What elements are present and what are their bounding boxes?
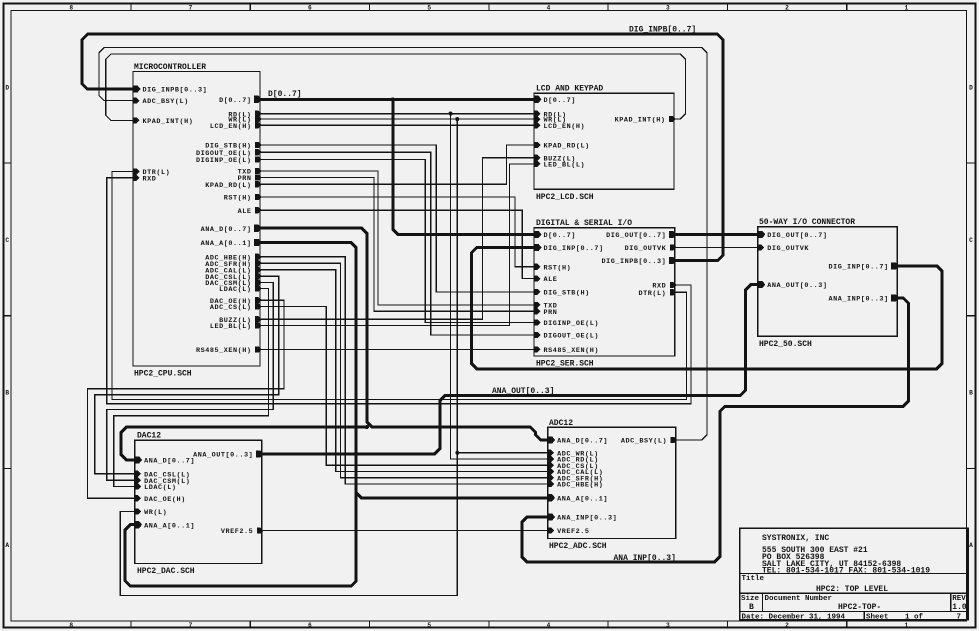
svg-text:5: 5 — [427, 622, 431, 629]
pin ADC_BSY(L) (ADC right) — [621, 437, 678, 446]
svg-text:Sheet: Sheet — [866, 614, 889, 622]
pin ADC_CS(L) (ADC left) — [548, 462, 599, 471]
pin DIG_INPB[0..3] (MCU left) — [133, 85, 207, 94]
wire DIG_OUTVK (SER to 50-way) — [675, 246, 758, 248]
svg-text:ADC_CS(L): ADC_CS(L) — [210, 304, 252, 312]
pin ANA_A[0..1] (ADC left) — [548, 494, 608, 503]
pin VREF2.5 (DAC right) — [221, 528, 264, 537]
wire LED_BL(L) — [260, 164, 534, 326]
pin WR(L) (DAC left) — [135, 508, 167, 517]
svg-text:MICROCONTROLLER: MICROCONTROLLER — [134, 63, 206, 72]
pin DTR(L) (MCU left) — [133, 168, 170, 177]
svg-text:6: 6 — [308, 5, 312, 12]
title block frame and dividers — [740, 528, 968, 619]
pin KPAD_RD(L) (MCU right) — [205, 181, 262, 190]
svg-text:DIGINP_OE(L): DIGINP_OE(L) — [544, 320, 600, 328]
wire KPAD_INT(H) (LCD to MCU around top) — [106, 54, 686, 120]
svg-text:B: B — [969, 390, 973, 397]
wire VREF2.5 (DAC to ADC) — [262, 530, 548, 532]
svg-text:HPC2_CPU.SCH: HPC2_CPU.SCH — [134, 370, 192, 379]
pin DIGINP_OE(L) (SER left) — [534, 319, 599, 328]
svg-text:8: 8 — [69, 622, 73, 629]
wire ADC_SFR(H) — [260, 263, 548, 478]
pin RS485_XEN(H) (SER left) — [534, 346, 599, 355]
pin LCD_EN(H) (MCU right) — [210, 122, 262, 131]
svg-text:DIGOUT_OE(L): DIGOUT_OE(L) — [544, 333, 600, 341]
pin ANA_INP[0..3] (W50 right) — [829, 295, 899, 304]
svg-text:DIG_STB(H): DIG_STB(H) — [544, 290, 590, 298]
pin WR(L) (LCD left) — [534, 116, 566, 125]
svg-text:C: C — [5, 237, 9, 244]
bus D[0..7] (MCU to LCD) — [260, 98, 534, 101]
svg-text:KPAD_INT(H): KPAD_INT(H) — [615, 117, 666, 125]
svg-text:HPC2_ADC.SCH: HPC2_ADC.SCH — [549, 542, 607, 551]
pin ANA_D[0..7] (MCU right) — [201, 225, 262, 234]
pin DIG_OUT[0..7] (SER right) — [606, 231, 676, 240]
pin ADC_HBE(H) (ADC left) — [548, 481, 603, 490]
svg-text:PRN: PRN — [544, 309, 558, 317]
sheet block outline: DIGITAL &amp; SERIAL I/O — [534, 228, 675, 356]
wire BUZZ(L) — [260, 158, 534, 320]
svg-text:D: D — [5, 84, 9, 91]
svg-text:REV: REV — [952, 595, 966, 603]
wire RST(H) — [260, 197, 534, 267]
title block address lines — [762, 546, 930, 576]
pin WR(L) (MCU right) — [228, 116, 261, 125]
svg-text:HPC2_LCD.SCH: HPC2_LCD.SCH — [536, 193, 594, 202]
wire DAC_CSL(L) — [95, 276, 279, 474]
svg-text:D[0..7]: D[0..7] — [544, 97, 576, 105]
svg-text:ALE: ALE — [238, 208, 252, 216]
svg-text:DIG_OUT[0..7]: DIG_OUT[0..7] — [767, 232, 827, 240]
svg-text:Document Number: Document Number — [765, 595, 833, 603]
pin RST(H) (MCU right) — [224, 194, 262, 203]
svg-text:ANA_D[0..7]: ANA_D[0..7] — [557, 438, 608, 446]
svg-text:RST(H): RST(H) — [224, 195, 252, 203]
svg-text:D[0..7]: D[0..7] — [268, 90, 302, 99]
wire PRN — [260, 177, 534, 311]
bus ANA_OUT[0..3] (DAC to 50-way) — [262, 285, 758, 454]
pin LED_BL(L) (MCU right) — [210, 323, 262, 332]
svg-text:RST(H): RST(H) — [544, 264, 572, 272]
svg-text:DIG_OUTVK: DIG_OUTVK — [625, 245, 667, 253]
pin ANA_OUT[0..3] (DAC right) — [193, 450, 263, 459]
pin DIGOUT_OE(L) (MCU right) — [196, 149, 262, 158]
svg-text:ANA_D[0..7]: ANA_D[0..7] — [201, 226, 252, 234]
pin DIGINP_OE(L) (MCU right) — [196, 156, 262, 165]
svg-text:Title: Title — [742, 575, 765, 583]
svg-text:LED_BL(L): LED_BL(L) — [544, 162, 586, 170]
svg-text:ANA_INP[0..3]: ANA_INP[0..3] — [614, 554, 676, 563]
pin RST(H) (SER left) — [534, 264, 571, 273]
junction ANA_D — [365, 425, 369, 429]
svg-text:A: A — [5, 542, 9, 549]
svg-text:D[0..7]: D[0..7] — [219, 97, 251, 105]
pin PRN (MCU right) — [238, 174, 262, 183]
pin ADC_WR(L) (ADC left) — [548, 450, 599, 459]
svg-text:DAC_OE(H): DAC_OE(H) — [144, 496, 186, 504]
pin ANA_INP[0..3] (ADC left) — [548, 513, 617, 522]
pin ANA_D[0..7] (DAC left) — [135, 456, 195, 465]
svg-text:4: 4 — [547, 5, 551, 12]
pin TXD (MCU right) — [238, 168, 262, 177]
pin D[0..7] (MCU right) — [219, 96, 262, 105]
pin ADC_SFR(H) (MCU right) — [205, 260, 262, 269]
pin ANA_A[0..1] (DAC left) — [135, 521, 195, 530]
svg-text:DAC12: DAC12 — [137, 432, 161, 441]
svg-text:ANA_INP[0..3]: ANA_INP[0..3] — [829, 296, 889, 304]
svg-text:7: 7 — [956, 614, 961, 622]
svg-text:6: 6 — [308, 622, 312, 629]
wire WR(L) branch around bottom to DAC — [120, 453, 457, 596]
svg-text:WR(L): WR(L) — [144, 509, 167, 517]
svg-text:50-WAY I/O CONNECTOR: 50-WAY I/O CONNECTOR — [759, 218, 855, 227]
wire RD(L) (MCU to LCD) — [260, 113, 534, 115]
svg-text:A: A — [969, 542, 973, 549]
svg-text:LCD_EN(H): LCD_EN(H) — [210, 123, 252, 131]
svg-text:TEL: 801-534-1017 FAX: 801-53: TEL: 801-534-1017 FAX: 801-534-1019 — [762, 567, 930, 576]
svg-text:KPAD_RD(L): KPAD_RD(L) — [205, 182, 251, 190]
pin RXD (MCU left) — [133, 175, 156, 184]
pin ADC_CAL(L) (ADC left) — [548, 468, 603, 477]
svg-text:HPC2: TOP LEVEL: HPC2: TOP LEVEL — [816, 585, 888, 594]
svg-text:ADC_HBE(H): ADC_HBE(H) — [557, 482, 603, 490]
svg-text:DTR(L): DTR(L) — [639, 290, 667, 298]
svg-text:D: D — [969, 84, 973, 91]
svg-text:Date: December 31, 1994: Date: December 31, 1994 — [742, 614, 846, 622]
bus ANA_D[0..7] branch left to DAC — [121, 427, 367, 460]
svg-text:DIG_INP[0..7]: DIG_INP[0..7] — [829, 264, 889, 272]
wire ADC_BSY(L) (ADC to MCU around top) — [99, 48, 707, 440]
junction RD branch — [449, 112, 453, 116]
svg-text:ANA_A[0..1]: ANA_A[0..1] — [557, 495, 608, 503]
svg-text:DIG_INPB[0..7]: DIG_INPB[0..7] — [629, 26, 696, 35]
svg-text:HPC2_SER.SCH: HPC2_SER.SCH — [536, 360, 594, 369]
wire DTR(L) (SER around bottom to MCU) — [112, 172, 687, 400]
pin DIG_INP[0..7] (W50 right) — [829, 262, 899, 271]
wire TXD — [260, 171, 534, 305]
pin ADC_HBE(H) (MCU right) — [205, 254, 262, 263]
wire ADC_CS(L) — [260, 307, 548, 466]
wire LDAC(L) — [114, 289, 269, 487]
wire DIGOUT_OE(L) — [260, 152, 534, 335]
svg-text:8: 8 — [69, 5, 73, 12]
pin DIG_INPB[0..3] (SER right) — [601, 257, 676, 266]
wire WR(L) branch down to ADC_WR — [457, 119, 547, 453]
pin DAC_CSL(L) (DAC left) — [135, 471, 190, 480]
svg-text:KPAD_INT(H): KPAD_INT(H) — [143, 118, 194, 126]
sheet block outline: LCD AND KEYPAD — [534, 93, 674, 189]
bus ANA_D[0..7] (MCU down to row 427) — [260, 228, 548, 440]
svg-text:C: C — [969, 237, 973, 244]
pin BUZZ(L) (LCD left) — [534, 155, 576, 164]
svg-text:HPC2-TOP-: HPC2-TOP- — [838, 603, 881, 612]
svg-text:1 of: 1 of — [905, 614, 924, 622]
pin BUZZ(L) (MCU right) — [219, 316, 262, 325]
title block Size/Document Number/REV row — [741, 595, 967, 612]
svg-text:1: 1 — [905, 622, 909, 629]
svg-text:RXD: RXD — [143, 175, 157, 183]
pin DIG_OUTVK (SER right) — [625, 244, 677, 253]
pin ANA_A[0..1] (MCU right) — [201, 239, 262, 248]
svg-text:4: 4 — [547, 622, 551, 629]
pin DIG_STB(H) (MCU right) — [205, 142, 262, 151]
svg-text:LDAC(L): LDAC(L) — [219, 286, 251, 294]
wire LCD_EN(H) — [260, 124, 534, 126]
pin D[0..7] (SER left) — [534, 231, 576, 240]
svg-text:HPC2_DAC.SCH: HPC2_DAC.SCH — [137, 567, 195, 576]
bus ANA_A[0..1] (MCU down, around bottom to DAC) — [125, 243, 356, 587]
svg-text:3: 3 — [666, 5, 670, 12]
svg-text:ANA_A[0..1]: ANA_A[0..1] — [201, 240, 252, 248]
pin DIGOUT_OE(L) (SER left) — [534, 332, 599, 341]
pin TXD (SER left) — [534, 302, 557, 311]
svg-text:ADC12: ADC12 — [549, 419, 573, 428]
pin DIG_OUTVK (W50 left) — [758, 244, 809, 253]
wire ALE — [260, 210, 534, 278]
title block Date/Sheet row — [742, 614, 962, 622]
pin DIG_STB(H) (SER left) — [534, 289, 589, 298]
title block Title field — [742, 575, 889, 594]
svg-text:VREF2.5: VREF2.5 — [557, 528, 589, 536]
wire DAC_CSM(L) — [107, 282, 274, 480]
pin VREF2.5 (ADC left) — [548, 528, 590, 537]
pin DTR(L) (SER right) — [639, 289, 677, 298]
svg-text:B: B — [5, 390, 9, 397]
svg-text:5: 5 — [427, 5, 431, 12]
svg-text:LCD_EN(H): LCD_EN(H) — [544, 123, 586, 131]
sheet block outline: 50-WAY I/O CONNECTOR — [758, 227, 897, 337]
svg-text:LCD AND KEYPAD: LCD AND KEYPAD — [536, 85, 603, 94]
pin DAC_CSL(L) (MCU right) — [205, 273, 262, 282]
svg-text:KPAD_RD(L): KPAD_RD(L) — [544, 143, 590, 151]
pin LCD_EN(H) (LCD left) — [534, 122, 585, 131]
wire DIG_STB(H) — [260, 145, 534, 292]
wire DAC_OE(H) — [87, 300, 284, 498]
svg-text:Size: Size — [741, 595, 760, 603]
svg-text:DIG_OUT[0..7]: DIG_OUT[0..7] — [606, 232, 666, 240]
bus DIG_INPB[0..7] (SER to MCU around top) — [82, 34, 723, 261]
svg-text:ANA_OUT[0..3]: ANA_OUT[0..3] — [492, 387, 554, 396]
junction WR/ADC_WR — [455, 451, 459, 455]
svg-text:2: 2 — [785, 622, 789, 629]
wire RD(L) branch down to ADC_RD — [451, 114, 548, 459]
pin PRN (SER left) — [534, 308, 557, 317]
svg-text:LED_BL(L): LED_BL(L) — [210, 323, 252, 331]
pin RD(L) (MCU right) — [228, 111, 261, 120]
pin DIG_OUT[0..7] (W50 left) — [758, 231, 827, 240]
pin KPAD_RD(L) (LCD left) — [534, 142, 589, 151]
pin DAC_OE(H) (MCU right) — [210, 297, 262, 306]
sheet block outline: ADC12 — [548, 427, 676, 538]
svg-text:D[0..7]: D[0..7] — [544, 232, 576, 240]
wire WR(L) (MCU to LCD) — [260, 118, 534, 120]
svg-text:SYSTRONIX, INC: SYSTRONIX, INC — [762, 534, 829, 543]
wire RXD (SER around bottom to MCU) — [107, 178, 691, 404]
bus ANA_A[0..1] branch to ADC — [356, 493, 547, 498]
svg-text:DIGITAL & SERIAL I/O: DIGITAL & SERIAL I/O — [536, 219, 632, 228]
svg-text:DIG_INPB[0..3]: DIG_INPB[0..3] — [143, 87, 208, 95]
svg-text:ADC_BSY(L): ADC_BSY(L) — [621, 438, 667, 446]
pin RD(L) (LCD left) — [534, 111, 566, 120]
wire ADC_HBE(H) — [260, 257, 548, 484]
svg-text:ADC_BSY(L): ADC_BSY(L) — [143, 98, 189, 106]
svg-text:DIG_INP[0..7]: DIG_INP[0..7] — [544, 245, 604, 253]
bus ANA_INP[0..3] (50-way around bottom to ADC) — [522, 298, 909, 562]
wire DIGINP_OE(L) — [260, 159, 534, 322]
pin ALE (SER left) — [534, 276, 557, 285]
wire RS485_XEN(H) — [260, 348, 534, 350]
wire KPAD_RD(L) — [260, 145, 534, 184]
svg-text:ANA_D[0..7]: ANA_D[0..7] — [144, 458, 195, 466]
svg-text:DIGINP_OE(L): DIGINP_OE(L) — [196, 157, 252, 165]
pin ANA_D[0..7] (ADC left) — [548, 436, 608, 445]
svg-text:1.0: 1.0 — [952, 603, 967, 612]
svg-text:DIG_INPB[0..3]: DIG_INPB[0..3] — [601, 258, 666, 266]
pin LDAC(L) (MCU right) — [219, 286, 262, 295]
svg-text:ANA_INP[0..3]: ANA_INP[0..3] — [557, 515, 617, 523]
svg-text:1: 1 — [905, 5, 909, 12]
pin KPAD_INT(H) (LCD right) — [615, 116, 676, 125]
svg-text:ANA_OUT[0..3]: ANA_OUT[0..3] — [193, 452, 253, 460]
svg-text:3: 3 — [666, 622, 670, 629]
svg-text:RS485_XEN(H): RS485_XEN(H) — [196, 347, 252, 355]
pin DAC_OE(H) (DAC left) — [135, 495, 186, 504]
svg-text:RS485_XEN(H): RS485_XEN(H) — [544, 347, 600, 355]
svg-text:ALE: ALE — [544, 276, 558, 284]
svg-text:B: B — [749, 603, 754, 612]
pin LED_BL(L) (LCD left) — [534, 161, 585, 170]
pin ADC_CAL(L) (MCU right) — [205, 267, 262, 276]
pin ADC_RD(L) (ADC left) — [548, 456, 599, 465]
pin RXD (SER right) — [652, 282, 676, 291]
pin ALE (MCU right) — [238, 207, 262, 216]
pin KPAD_INT(H) (MCU left) — [133, 117, 193, 126]
pin ANA_OUT[0..3] (W50 left) — [758, 281, 827, 290]
pin D[0..7] (LCD left) — [534, 96, 576, 105]
svg-text:7: 7 — [189, 622, 193, 629]
bus D[0..7] branch down to SER — [393, 99, 534, 234]
bus DIG_INP[0..7] (50-way around right/bottom to SER) — [472, 248, 943, 369]
bus DIG_OUT[0..7] (SER to 50-way) — [675, 233, 758, 236]
pin DIG_INP[0..7] (SER left) — [534, 244, 603, 253]
pin DAC_CSM(L) (MCU right) — [205, 279, 262, 288]
svg-text:LDAC(L): LDAC(L) — [144, 484, 176, 492]
pin RS485_XEN(H) (MCU right) — [196, 346, 262, 355]
svg-text:7: 7 — [189, 5, 193, 12]
wire ADC_CAL(L) — [260, 270, 548, 472]
pin DAC_CSM(L) (DAC left) — [135, 477, 190, 486]
svg-text:ANA_A[0..1]: ANA_A[0..1] — [144, 522, 195, 530]
svg-text:HPC2_50.SCH: HPC2_50.SCH — [759, 340, 812, 349]
svg-text:VREF2.5: VREF2.5 — [221, 528, 253, 536]
junction WR branch — [455, 117, 459, 121]
pin ADC_SFR(H) (ADC left) — [548, 475, 603, 484]
pin ADC_CS(L) (MCU right) — [210, 304, 262, 313]
svg-text:ANA_OUT[0..3]: ANA_OUT[0..3] — [767, 282, 827, 290]
svg-text:DIG_OUTVK: DIG_OUTVK — [767, 245, 809, 253]
junction D bus — [391, 97, 395, 101]
sheet block outline: MICROCONTROLLER — [133, 72, 260, 367]
pin LDAC(L) (DAC left) — [135, 484, 177, 493]
svg-text:2: 2 — [785, 5, 789, 12]
pin ADC_BSY(L) (MCU left) — [133, 98, 188, 107]
sheet block outline: DAC12 — [135, 440, 262, 563]
